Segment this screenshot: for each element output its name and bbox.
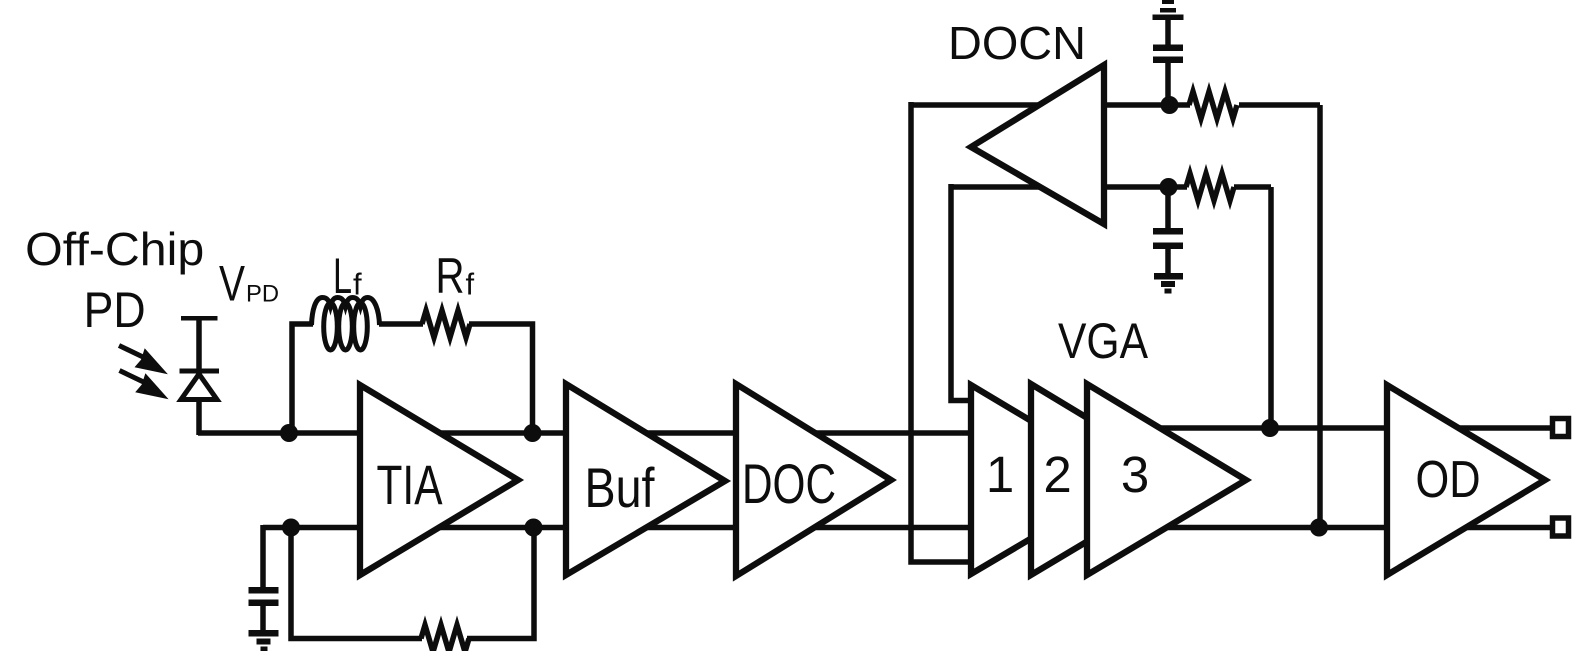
output pad top	[1553, 419, 1569, 437]
op-amp Buf	[566, 384, 725, 575]
svg-text:PD: PD	[246, 280, 279, 307]
svg-text:Buf: Buf	[585, 456, 655, 519]
op-amp DOC	[736, 384, 891, 576]
wire top-right main	[1130, 425, 1552, 431]
node DOCN top cap junction	[1161, 96, 1179, 114]
wire TIA bottom feedback right riser	[467, 527, 534, 639]
svg-text:OD: OD	[1416, 451, 1481, 509]
resistor DOCN bottom	[1186, 174, 1234, 201]
wire TIA top feedback left riser	[292, 324, 313, 435]
svg-text:TIA: TIA	[377, 453, 443, 516]
capacitor DOCN top plates	[1153, 45, 1183, 52]
wire TIA bottom feedback left riser	[291, 527, 422, 639]
wire bottom main	[263, 525, 1552, 531]
wire DOCN right outer drop	[1317, 105, 1323, 528]
inductor Lf	[312, 298, 380, 351]
wire TIA top feedback mid	[379, 321, 423, 327]
capacitor DOCN bottom plates	[1153, 228, 1183, 235]
light arrow 2	[135, 373, 168, 399]
wire DOCN left inner riser	[951, 184, 971, 401]
svg-text:DOCN: DOCN	[948, 17, 1086, 69]
op-amp VGA stage 2	[1031, 384, 1190, 575]
capacitor left plates	[249, 587, 279, 594]
ground DOCN bottom	[1154, 273, 1183, 280]
svg-text:1: 1	[986, 446, 1014, 503]
svg-text:f: f	[466, 267, 475, 302]
wire TIA top feedback right riser	[469, 324, 533, 433]
op-amp VGA stage 1	[971, 385, 1130, 574]
svg-text:L: L	[333, 248, 352, 304]
node TIA input bottom	[282, 519, 300, 537]
wire DOCN top	[911, 102, 1190, 108]
node right bottom junction	[1310, 519, 1328, 537]
node TIA output top	[524, 424, 542, 442]
wire top-left main	[198, 430, 1130, 436]
op-amp DOCN (pointing left)	[971, 65, 1104, 224]
svg-text:3: 3	[1121, 446, 1149, 503]
wire left cap drop	[260, 525, 266, 588]
svg-text:f: f	[353, 266, 362, 301]
node DOCN bottom cap junction	[1160, 178, 1178, 196]
light arrow 1	[135, 348, 169, 399]
resistor DOCN top	[1189, 92, 1237, 119]
op-amp TIA	[360, 385, 518, 575]
op-amp OD output driver	[1387, 385, 1545, 575]
node TIA input top	[280, 424, 298, 442]
wire DOCN left outer riser	[911, 102, 971, 562]
op-amp VGA stage 3	[1087, 384, 1246, 575]
wire left cap to ground	[260, 605, 266, 632]
supply terminal VPD	[181, 316, 218, 321]
svg-text:V: V	[219, 256, 245, 312]
svg-text:Off-Chip: Off-Chip	[25, 223, 204, 275]
resistor Rf	[422, 311, 470, 338]
svg-text:VGA: VGA	[1058, 313, 1149, 369]
svg-text:2: 2	[1043, 446, 1071, 503]
photodiode PD cathode bar	[180, 369, 220, 374]
node TIA output bottom	[525, 519, 543, 537]
wire DOCN bottom after resistor	[1234, 184, 1271, 190]
wire DOCN bottom cap chain	[1165, 185, 1171, 229]
ground DOCN top (inverted)	[1162, 0, 1174, 4]
wire DOCN top after resistor	[1239, 102, 1320, 108]
wire DOCN top cap chain	[1165, 17, 1171, 46]
wire DOCN right inner drop	[1268, 187, 1274, 428]
svg-text:DOC: DOC	[742, 452, 836, 515]
wire PD vertical	[196, 318, 202, 435]
resistor bottom feedback	[421, 625, 469, 651]
ground left	[249, 630, 279, 637]
node right top junction	[1261, 419, 1279, 437]
svg-text:PD: PD	[84, 282, 146, 338]
svg-text:R: R	[436, 248, 465, 304]
wire DOCN bottom	[951, 184, 1187, 190]
photodiode PD anode triangle	[181, 374, 217, 400]
output pad bottom	[1553, 518, 1569, 536]
